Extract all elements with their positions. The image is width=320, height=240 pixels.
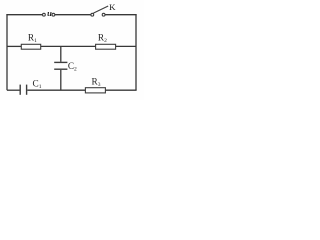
switch K contact circle: [102, 13, 105, 16]
bottom rail wire left segment: [7, 89, 20, 91]
resistor R1: [21, 44, 40, 49]
middle rail wire left segment: [7, 45, 21, 47]
left wall wire: [6, 14, 8, 90]
top rail wire right segment: [105, 14, 137, 16]
switch K pivot circle: [91, 13, 94, 16]
capacitor C1 left plate: [19, 85, 21, 95]
svg-text:K: K: [109, 2, 116, 12]
background: [0, 0, 144, 100]
bottom rail wire right segment: [105, 89, 136, 91]
right wall wire: [135, 14, 137, 90]
middle rail wire right segment: [116, 45, 136, 47]
top rail wire left segment: [6, 14, 42, 16]
resistor R2: [96, 44, 116, 49]
terminal circle left of u: [43, 13, 46, 16]
capacitor C1 right plate: [26, 85, 28, 95]
svg-text:u: u: [47, 8, 52, 18]
top rail wire middle segment: [55, 14, 91, 16]
switch K arm: [93, 6, 108, 13]
terminal circle right of u: [52, 13, 55, 16]
resistor R3: [85, 88, 105, 93]
middle rail wire center segment: [41, 45, 96, 47]
wire C2 branch lower: [60, 70, 62, 90]
capacitor C2 bottom plate: [54, 68, 67, 70]
wire C2 branch upper: [60, 46, 62, 61]
capacitor C2 top plate: [54, 61, 67, 63]
bottom rail wire center segment: [27, 89, 85, 91]
